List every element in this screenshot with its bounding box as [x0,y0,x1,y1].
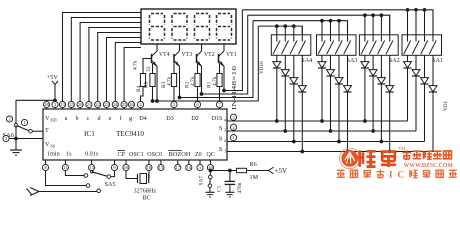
svg-text:4.7k: 4.7k [167,76,173,86]
SA1 key 4 [432,10,434,42]
svg-text:28: 28 [44,102,49,107]
node 1 circle [21,119,27,125]
svg-text:SS: SS [51,144,56,149]
wire SA2 column 2 to S line [372,76,374,131]
scan row wire D3 with riser to top bus [180,21,254,98]
wire SA2 column 3 to S line [380,84,382,142]
SA3 key 2 [330,21,332,42]
svg-text:14: 14 [187,165,192,170]
diode VD on SA1 column 4 [432,55,434,86]
S3 scan line wire [227,130,416,132]
diode VD on SA3 column 3 [338,55,340,78]
capacitor C1 [229,171,231,182]
top bus wire to SA2 [248,15,390,35]
key switch group SA2 box [359,35,398,56]
svg-text:+5V: +5V [47,74,59,81]
SA2 key 3 [380,15,382,41]
crystal B 32768Hz [137,174,139,183]
svg-text:1M: 1M [250,174,259,181]
IC top pin 26 stub [131,102,133,110]
IC top pin 22 stub [97,102,99,110]
switch SA6 throw contact [29,129,33,133]
svg-text:IC: IC [389,170,409,180]
S4 scan line wire [227,120,408,122]
wire crystal to OSC1 pin [148,171,150,179]
node 1 circle on S line [230,135,236,141]
wire segment bus d [89,28,141,102]
svg-text:DD: DD [51,118,57,123]
watermark slogan [337,170,345,177]
svg-text:QC: QC [207,152,215,158]
IC top pin 24 stub [114,102,116,110]
svg-text:R5: R5 [144,81,150,88]
svg-text:S: S [219,115,223,122]
svg-text:SA4: SA4 [301,57,312,64]
svg-text:R6: R6 [250,161,257,168]
diode VD on SA2 column 1 [364,55,366,62]
IC top pin 3 stub [54,102,56,110]
wire SA1 column 1 to S line [407,68,409,121]
wire junction down to SA7 [209,171,211,176]
svg-text:+5V: +5V [275,167,288,175]
svg-text:VD16: VD16 [259,61,265,74]
svg-text:BOZOH: BOZOH [169,152,192,158]
svg-text:15: 15 [159,165,164,170]
IC top pin 13 stub [62,102,64,110]
IC bottom pin 10 stub [148,160,150,164]
wire VT1 base to R1 [219,63,221,73]
watermark brand char wei [358,150,376,166]
switch SA7 blade [209,179,211,184]
IC top pin 7 stub [219,102,221,110]
wire segment bus h [124,48,141,102]
IC bottom pin 1 stub [199,160,201,164]
wire R6 to +5V [247,170,270,172]
+5V arrow right side [269,167,274,174]
S2 scan line wire [227,141,425,143]
wire SA4 column 4 to S line [301,92,303,152]
svg-text:V: V [45,141,50,148]
svg-text:TEC9410: TEC9410 [116,130,144,138]
svg-text:33: 33 [146,66,152,72]
diode VD on SA1 column 1 [407,55,409,62]
wire display digit 2 to collector [201,44,203,51]
svg-text:VT3: VT3 [182,52,193,58]
transistor VT4 [151,54,153,63]
switch SA5 blade [92,172,107,176]
SA4 key 2 [284,26,286,41]
switch SA7 top contact [209,175,213,179]
wire segment bus c [80,23,141,102]
wire signal source to contact [40,191,98,194]
key switch group SA3 box [317,35,357,56]
wire spare pin to SA5 contact [111,171,115,177]
scan row wire D1 with riser to top bus [224,10,242,91]
svg-text:c: c [87,115,90,122]
diode VD on SA4 column 3 [293,55,295,78]
switch SA6 pole contact [14,124,18,128]
IC bottom pin 19 stub [210,160,212,164]
svg-text:16: 16 [124,165,129,170]
wire R1 to IC pin [219,87,221,102]
SA2 key 1 [364,15,366,41]
node 2 circle [6,116,12,122]
SA4 key 4 [301,26,303,41]
wire SA3 column 4 to S line [347,92,349,152]
SA1 key 2 [415,10,417,42]
resistor R1 [217,74,222,87]
svg-text:D3: D3 [166,115,174,122]
switch SA7 bottom contact [208,184,212,188]
wire segment bus a [63,13,142,102]
svg-text:CP: CP [118,152,126,158]
svg-text:2: 2 [224,138,226,143]
watermark brand char ku [380,152,396,167]
wire SA4 column 3 to S line [293,84,295,142]
svg-text:470n: 470n [237,182,243,193]
wire segment bus g [115,43,141,102]
switch SA6 blade [17,126,29,131]
wire SA6 common to +5V rail [16,100,55,125]
svg-text:VT2: VT2 [204,52,215,58]
IC top pin 5 stub [173,102,175,110]
+5V supply arrow and wire to VDD [54,84,56,102]
IC top pin 20 stub [79,102,81,110]
wire 1min pin to contact [46,171,87,186]
wire VT3 base to R3 [173,63,175,73]
svg-text:SA2: SA2 [389,57,400,64]
ground symbol [10,149,22,151]
wire SA3 column 1 to S line [321,68,323,121]
IC top pin 6 stub [197,102,199,110]
wire segment bus e [98,33,141,102]
svg-text:4.7k: 4.7k [212,76,218,86]
wire segment bus f [107,38,142,102]
svg-text:15: 15 [69,102,74,107]
svg-text:1s: 1s [66,150,72,157]
svg-text:10: 10 [147,165,152,170]
svg-text:24: 24 [113,102,118,107]
wire VT4 emitter down to scan row [156,66,158,101]
SA2 key 2 [372,15,374,41]
resistor R6 [237,168,247,172]
svg-text:D2: D2 [191,115,199,122]
node 3 circle [3,135,9,141]
svg-text:IC1: IC1 [84,130,95,138]
IC U1 TEC9410 body [43,109,227,160]
wire SA1 column 4 to S line [432,92,434,152]
node 3 circle on S line [230,114,236,120]
svg-text:C1: C1 [217,185,223,192]
IC bottom pin 13 stub [91,160,93,164]
svg-text:0.01s: 0.01s [85,150,99,157]
svg-text:S: S [219,136,223,143]
svg-text:D4: D4 [139,115,147,122]
IC top pin 28 stub [46,102,48,110]
ground symbol for SA7 [205,191,214,193]
signal contact [97,189,101,193]
wire SA4 column 1 to S line [276,68,278,121]
transistor VT2 [196,54,198,63]
diode VD on SA4 column 1 [276,55,278,62]
SA5 pivot stub [91,171,93,172]
IC bottom pin 8 stub [45,160,47,164]
svg-text:23: 23 [104,102,109,107]
IC top pin 23 stub [106,102,108,110]
svg-text:V: V [45,115,50,122]
resistor R4 [140,74,145,87]
svg-text:R4: R4 [136,85,142,92]
signal source arrow [30,188,39,196]
wire display digit 3 to collector [179,44,181,51]
key switch group SA4 box [271,35,311,56]
top bus wire to SA3 [253,21,348,35]
svg-text:SA3: SA3 [347,57,358,64]
svg-text:Z0: Z0 [195,152,202,158]
wire SA1 column 2 to S line [415,76,417,131]
resistor R2 [195,74,200,87]
diode VD on SA4 column 4 [301,55,303,86]
wire CP pin to crystal [126,171,138,179]
diode VD on SA1 column 3 [424,55,426,78]
SA3 key 4 [347,21,349,42]
SA3 key 1 [321,21,323,42]
transistor VT1 [218,54,220,63]
1min contact [86,184,90,188]
resistor R5 [152,63,154,73]
IC bottom pin 9 stub [114,160,116,164]
svg-text:4.7k: 4.7k [190,76,196,86]
svg-text:VT1: VT1 [226,52,237,58]
svg-text:4.7k: 4.7k [133,60,139,70]
wire SA6 pivot down to ground [15,125,17,150]
svg-text:32768Hz: 32768Hz [134,188,157,195]
IC top pin 21 stub [88,102,90,110]
scan row wire D2 with riser to top bus [202,15,248,94]
svg-text:11: 11 [63,165,68,170]
scan row wire D4 with riser to top bus [153,26,259,101]
wire 1s pin to contact [65,171,84,176]
svg-text:S: S [219,125,223,132]
svg-text:1: 1 [224,149,226,154]
wire display digit 4 to collector [156,44,158,51]
wire T pin to SA6 contact [32,130,43,132]
svg-text:26: 26 [129,102,134,107]
svg-text:TM: TM [399,146,406,151]
wire segment bus b [71,18,141,102]
wire junction to C1 [211,170,230,172]
IC bottom pin 16 stub [125,160,127,164]
svg-text:25: 25 [122,102,127,107]
svg-text:WWW.DZSC.COM: WWW.DZSC.COM [404,163,454,169]
top bus wire to SA4 [258,26,302,35]
IC bottom pin 14 stub [188,160,190,164]
wire SA2 column 1 to S line [364,68,366,121]
wire SA3 column 2 to S line [330,76,332,131]
SA6 lower contact wire to VSS pin [9,138,43,140]
SA1 key 1 [407,10,409,42]
IC bottom pin 11 stub [64,160,66,164]
SA4 key 1 [276,26,278,41]
svg-text:OSC1: OSC1 [129,152,144,158]
key switch group SA1 box [402,35,442,56]
svg-text:21: 21 [87,102,92,107]
svg-text:IN4148×16: IN4148×16 [232,66,238,110]
diode VD on SA3 column 1 [321,55,323,62]
svg-text:3: 3 [224,128,226,133]
wire SA2 column 4 to S line [389,92,391,152]
svg-text:13: 13 [89,165,94,170]
svg-text:b: b [75,115,78,122]
wire R5 to scan row [152,87,154,102]
transistor VT3 [173,54,175,63]
SA4 key 3 [293,26,295,41]
7-segment 4-digit LED display [141,9,236,44]
IC bottom pin 15 stub [160,160,162,164]
svg-text:SA1: SA1 [432,57,443,64]
diode VD on SA1 column 2 [415,55,417,70]
wire junction to R6 [230,170,237,172]
svg-text:22: 22 [95,102,100,107]
svg-text:a: a [65,115,68,122]
wire VT4 base to R4 [143,59,152,74]
wire R3 to IC pin [173,87,175,102]
diode VD on SA2 column 4 [389,55,391,86]
svg-text:g: g [129,115,132,122]
wire VT1 emitter down to scan row [223,66,225,91]
wire QC pin to junction [210,170,212,172]
diode VD on SA2 column 2 [372,55,374,70]
resistor R3 [171,74,176,87]
SA1 key 3 [424,10,426,42]
wire VT2 base to R2 [197,63,199,73]
IC top pin 25 stub [123,102,125,110]
wire SA7 to ground [209,187,211,192]
IC top pin 15 stub [70,102,72,110]
svg-text:1min: 1min [47,150,60,157]
svg-text:T: T [45,127,49,134]
SA2 key 4 [389,15,391,41]
node 2 circle on S line [230,124,236,130]
IC top pin 4 stub [140,102,142,110]
S1 scan line wire [227,151,433,153]
wire SA4 column 2 to S line [284,76,286,131]
svg-text:OSC0: OSC0 [147,152,162,158]
svg-text:SA7: SA7 [199,176,205,186]
diode VD on SA4 column 2 [284,55,286,70]
watermark logo circle [341,150,358,167]
ground symbol for C1 [225,191,234,193]
svg-text:20: 20 [78,102,83,107]
svg-text:e: e [109,115,112,122]
svg-text:VD1: VD1 [443,101,449,111]
top bus wire to SA1 [242,10,433,35]
diode VD on SA3 column 4 [347,55,349,86]
svg-text:17: 17 [176,165,181,170]
diode VD on SA3 column 2 [330,55,332,70]
wire R2 to IC pin [197,87,199,102]
diode VD on SA2 column 3 [380,55,382,78]
wire VT2 emitter down to scan row [201,66,203,94]
wire SA1 column 3 to S line [424,84,426,142]
svg-text:13: 13 [60,102,65,107]
svg-text:S: S [219,146,223,153]
wire VT3 emitter down to scan row [179,66,181,98]
wire R4 to D4 pin [141,87,144,102]
watermark site name chars [402,150,410,159]
SA3 key 3 [338,21,340,42]
1s contact [84,174,88,178]
svg-text:SA5: SA5 [105,181,116,188]
wire SA3 column 3 to S line [338,84,340,142]
IC bottom pin 17 stub [177,160,179,164]
SA5 throw contact [107,175,111,179]
svg-text:BC: BC [143,195,151,202]
svg-text:VT4: VT4 [159,52,170,58]
wire display digit 1 to collector [223,44,225,51]
